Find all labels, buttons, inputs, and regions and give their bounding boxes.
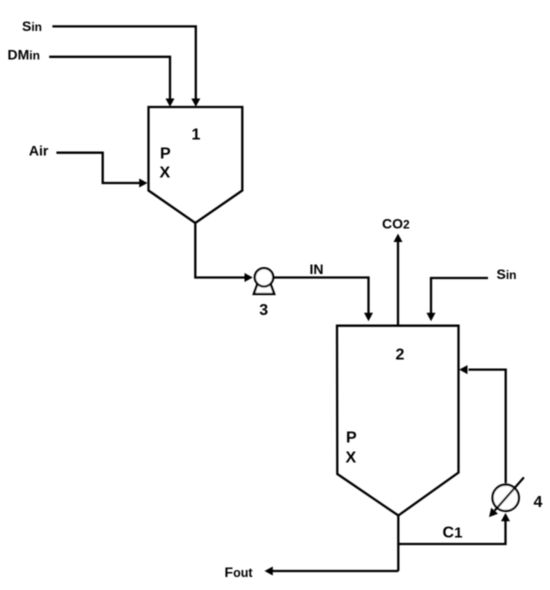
label 3 (pump number) (259, 302, 268, 319)
wire recycle from valve 4 into tank 2 (459, 365, 506, 483)
svg-text:DMin: DMin (8, 46, 40, 62)
svg-text:CO2: CO2 (382, 215, 410, 231)
label C1 (443, 525, 463, 542)
wire Sin to tank 1 (52, 26, 200, 106)
svg-text:P: P (160, 146, 171, 163)
label 1 (tank 1 number) (192, 127, 201, 144)
valve 4 (control valve, circle with arrow) (489, 477, 524, 517)
svg-text:Sin: Sin (497, 266, 517, 282)
label Fout (225, 564, 254, 580)
label CO2 (382, 215, 410, 231)
label X (tank 2) (346, 450, 357, 467)
svg-text:Sin: Sin (22, 18, 42, 34)
pump 3 (254, 268, 274, 294)
svg-text:4: 4 (534, 494, 543, 511)
svg-text:Air: Air (29, 142, 49, 158)
svg-text:Fout: Fout (225, 564, 254, 580)
wire DMin to tank 1 (49, 57, 174, 107)
wire tank 1 outlet to pump 3 (195, 223, 253, 282)
wire pump 3 to tank 2 (IN stream) (273, 278, 373, 322)
wire CO2 vent from tank 2 (394, 234, 403, 326)
svg-text:1: 1 (192, 127, 201, 144)
svg-text:2: 2 (396, 347, 405, 364)
wire Sin to tank 2 (427, 278, 489, 321)
label Sin (feed 1) (22, 18, 42, 34)
label 4 (valve number) (534, 494, 543, 511)
label Sin (feed to tank 2) (497, 266, 517, 282)
tank 2 (hopper vessel) (337, 326, 459, 516)
wire tank 2 outlet down (397, 516, 399, 572)
wire Fout outlet (265, 567, 399, 576)
svg-text:3: 3 (259, 302, 268, 319)
tank 1 (hopper vessel) (149, 107, 243, 223)
svg-text:P: P (346, 430, 357, 447)
label IN (310, 261, 324, 277)
wire C1 branch to valve 4 (398, 513, 510, 544)
svg-text:X: X (160, 165, 171, 182)
wire Air to tank 1 (56, 153, 147, 188)
svg-text:X: X (346, 450, 357, 467)
svg-text:IN: IN (310, 261, 324, 277)
label X (tank 1) (160, 165, 171, 182)
label P (tank 2) (346, 430, 357, 447)
svg-text:C1: C1 (443, 525, 463, 542)
label DMin (feed 2) (8, 46, 40, 62)
label 2 (tank 2 number) (396, 347, 405, 364)
label P (tank 1) (160, 146, 171, 163)
label Air (29, 142, 49, 158)
